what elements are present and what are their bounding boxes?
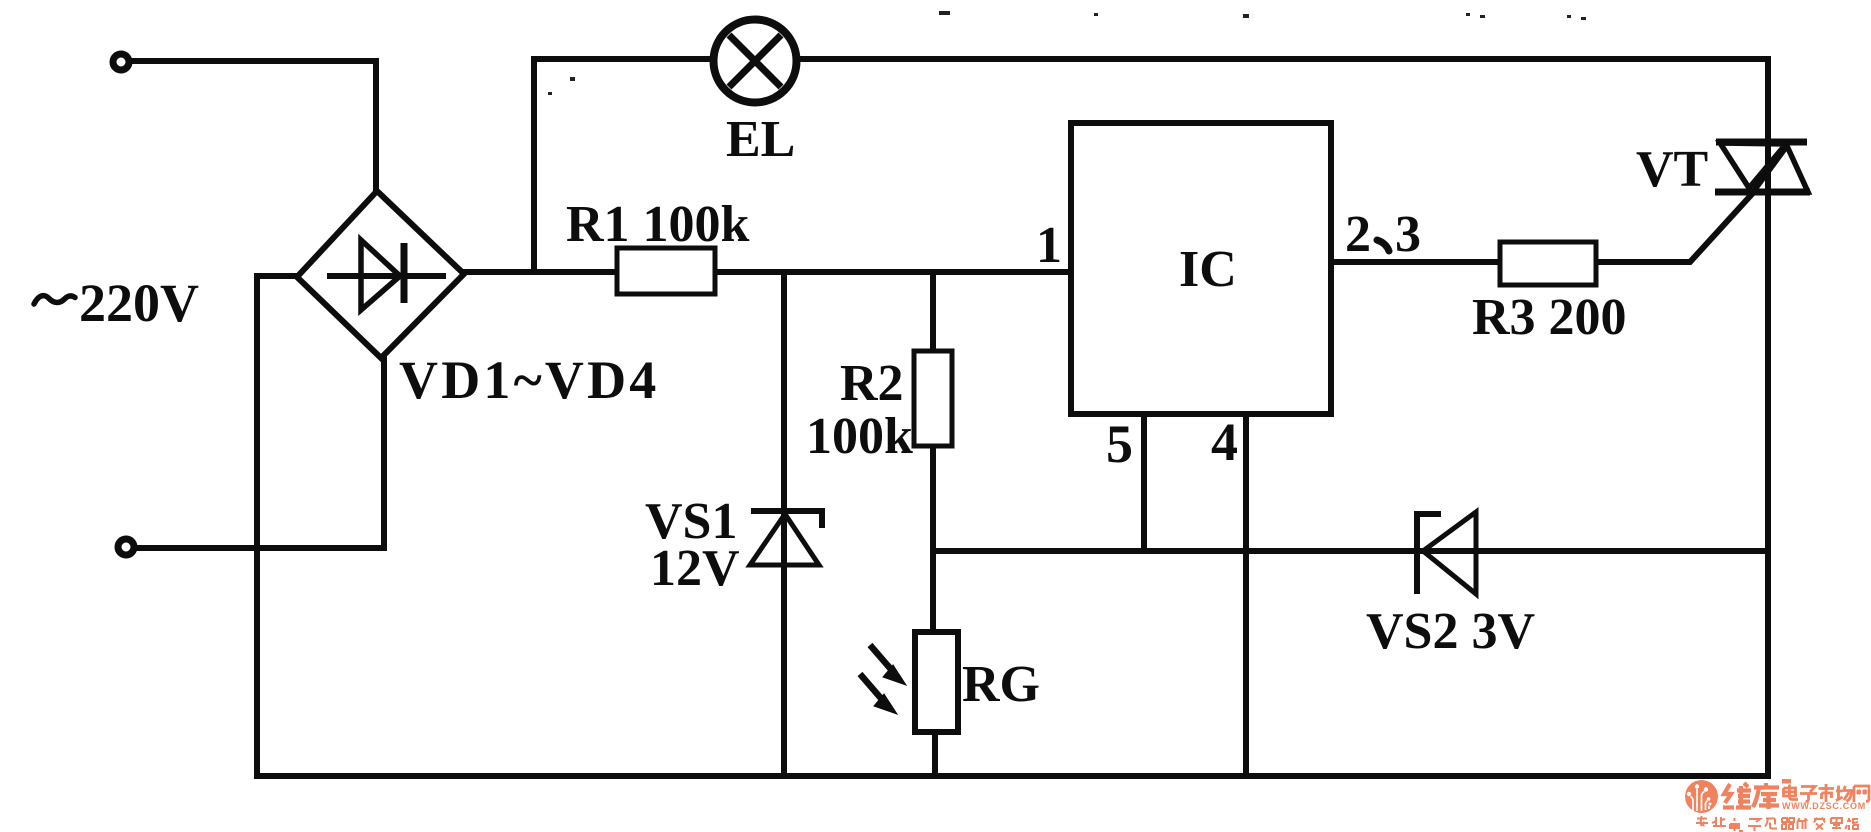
label R3 200 <box>1472 289 1627 346</box>
wire R1 line down to R2 top <box>930 272 936 351</box>
watermark text 电 (approximated glyph) <box>1784 785 1799 800</box>
svg-text:12V: 12V <box>650 540 740 597</box>
watermark text 库 (approximated glyph) <box>1753 783 1779 809</box>
zener VS1 <box>750 511 822 565</box>
lamp EL <box>714 20 797 103</box>
svg-text:1: 1 <box>1036 217 1062 274</box>
label IC <box>1179 241 1237 298</box>
wire R2 bottom to RG top <box>930 446 936 632</box>
watermark slogan 专业电子元器件交易网站 (approximated glyphs) <box>1696 816 1858 831</box>
terminal top-left <box>113 54 129 70</box>
watermark text 场 (approximated glyph) <box>1836 786 1852 802</box>
wire IC pins 2,3 to R3 <box>1331 259 1500 265</box>
bridge inner diode <box>327 240 446 310</box>
svg-text:R3 200: R3 200 <box>1472 289 1627 346</box>
svg-text:EL: EL <box>726 111 795 168</box>
watermark www.dzsc.com <box>1782 801 1866 811</box>
svg-text:VS2 3V: VS2 3V <box>1366 603 1535 660</box>
svg-text:VT: VT <box>1636 141 1708 198</box>
label 100k <box>806 408 913 465</box>
label 12V <box>650 540 740 597</box>
resistor R1 <box>617 248 715 294</box>
label VS1 <box>645 493 737 550</box>
svg-text:IC: IC <box>1179 241 1237 298</box>
svg-text:4: 4 <box>1211 412 1238 472</box>
watermark text 网 (approximated glyph) <box>1854 786 1869 802</box>
wire bridge left vertex to left bus <box>257 273 300 279</box>
watermark TM <box>1782 779 1791 784</box>
wire left bus vertical <box>254 276 260 776</box>
label ~220V <box>34 273 199 333</box>
wire RG bottom to bottom bus <box>932 732 938 776</box>
wire bridge right vertex to R1 <box>462 269 617 275</box>
scan noise specks <box>548 11 1586 95</box>
terminal bottom-left <box>118 539 134 555</box>
IC U1 box <box>1071 123 1331 414</box>
wire node up from R1 line to lamp line <box>531 59 537 272</box>
wire IC pin 5 <box>1141 414 1147 551</box>
svg-text:RG: RG <box>962 656 1040 713</box>
svg-text:220V: 220V <box>79 273 199 333</box>
svg-text:3: 3 <box>1395 206 1421 263</box>
svg-text:2: 2 <box>1345 206 1371 263</box>
label RG <box>962 656 1040 713</box>
svg-text:5: 5 <box>1106 414 1133 474</box>
wire IC pin 4 <box>1243 414 1249 776</box>
wire right bus vertical <box>1765 59 1771 776</box>
wire mid horizontal R2/RG node to right bus through VS2 <box>933 548 1768 554</box>
label VT <box>1636 141 1708 198</box>
label R2 <box>840 355 904 412</box>
watermark text 维 (approximated glyph) <box>1723 783 1751 808</box>
bridge rectifier VD1~VD4 diamond <box>297 191 464 358</box>
RG light arrows <box>860 645 906 714</box>
wire lamp line right segment to top-right corner <box>799 56 1768 62</box>
resistor R2 <box>914 351 952 446</box>
label VS2 3V <box>1366 603 1535 660</box>
watermark text 子 (approximated glyph) <box>1800 787 1817 802</box>
resistor R3 <box>1500 242 1596 285</box>
label EL <box>726 111 795 168</box>
wire bottom-left terminal to bridge bottom <box>137 356 384 548</box>
photoresistor RG <box>915 632 958 732</box>
svg-text:R2: R2 <box>840 355 904 412</box>
pin label 1 <box>1036 217 1062 274</box>
triac VT <box>1715 142 1810 192</box>
pin label 5 <box>1106 414 1133 474</box>
wire VS1 branch vertical <box>781 272 787 776</box>
wire bottom bus <box>257 773 1768 779</box>
wire R1 to IC pin 1 <box>713 269 1071 275</box>
label R1 100k <box>566 196 750 253</box>
wire top-left terminal to bridge top <box>132 61 376 194</box>
svg-text:VD1~VD4: VD1~VD4 <box>399 350 659 410</box>
pin label 2,3 <box>1345 206 1421 263</box>
svg-text:100k: 100k <box>806 408 913 465</box>
svg-text:WWW.DZSC.COM: WWW.DZSC.COM <box>1782 801 1866 811</box>
label VD1~VD4 <box>399 350 659 410</box>
pin label 4 <box>1211 412 1238 472</box>
wire R3 to triac gate <box>1596 193 1753 262</box>
zener VS2 <box>1417 512 1476 594</box>
wire lamp line left segment <box>534 56 711 62</box>
svg-text:R1 100k: R1 100k <box>566 196 750 253</box>
watermark text 市 (approximated glyph) <box>1819 784 1835 802</box>
watermark logo circle <box>1685 780 1718 813</box>
